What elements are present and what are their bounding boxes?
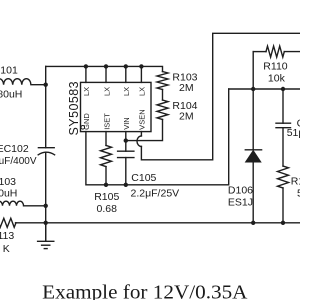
svg-text:R110: R110 <box>263 60 287 72</box>
svg-text:VIN: VIN <box>122 117 131 130</box>
svg-text:Example for 12V/0.35A: Example for 12V/0.35A <box>42 281 248 300</box>
svg-text:LX: LX <box>138 87 147 96</box>
svg-text:C105: C105 <box>131 172 156 184</box>
svg-text:10k: 10k <box>268 73 286 85</box>
svg-text:R1: R1 <box>291 175 300 187</box>
svg-text:EC102: EC102 <box>0 143 29 155</box>
svg-text:L103: L103 <box>0 176 16 188</box>
svg-text:51p: 51p <box>287 127 300 139</box>
svg-text:VSEN: VSEN <box>138 109 147 129</box>
svg-text:D106: D106 <box>228 185 253 197</box>
svg-text:5: 5 <box>297 188 300 200</box>
svg-text:ISET: ISET <box>102 113 111 130</box>
svg-text:GND: GND <box>82 113 91 130</box>
svg-text:K: K <box>3 243 10 255</box>
svg-text:2M: 2M <box>179 82 194 94</box>
svg-text:LX: LX <box>82 87 91 96</box>
svg-text:0.68: 0.68 <box>97 203 118 215</box>
svg-text:R105: R105 <box>94 191 119 203</box>
svg-text:LX: LX <box>122 87 131 96</box>
svg-text:2M: 2M <box>179 111 194 123</box>
svg-text:2.2μF/25V: 2.2μF/25V <box>131 187 180 199</box>
svg-text:10uF/400V: 10uF/400V <box>0 156 37 167</box>
svg-text:ES1J: ES1J <box>228 197 253 209</box>
svg-text:SY50583: SY50583 <box>67 81 81 136</box>
svg-text:100uH: 100uH <box>0 188 17 200</box>
svg-text:680uH: 680uH <box>0 88 22 100</box>
svg-text:LX: LX <box>102 87 111 96</box>
svg-text:R113: R113 <box>0 230 14 242</box>
svg-text:L101: L101 <box>0 65 18 77</box>
